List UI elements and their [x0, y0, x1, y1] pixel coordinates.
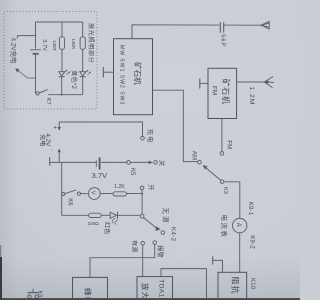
svg-text:K3: K3: [222, 187, 228, 194]
resistor R2 130R: [82, 22, 84, 37]
svg-text:有源: 有源: [131, 240, 139, 252]
FM set box U2: [208, 68, 237, 118]
impedance box: [218, 272, 247, 300]
svg-text:矿石机: 矿石机: [221, 79, 231, 105]
switch K6 pole: [62, 192, 65, 195]
LED D3 red: [110, 212, 116, 218]
wire 有源 to amp box: [142, 245, 144, 277]
svg-text:充电: 充电: [146, 129, 154, 144]
wire drop from battery row: [61, 162, 63, 215]
wire charge tap top: [59, 122, 142, 136]
svg-text:1.2K: 1.2K: [114, 184, 125, 190]
wire to battery: [50, 161, 96, 163]
node 开: [140, 186, 144, 190]
wire battery drop: [35, 22, 37, 49]
LED D1 yellow: [59, 72, 65, 76]
svg-text:K10: K10: [249, 278, 255, 290]
svg-text:AM: AM: [191, 151, 198, 160]
wire node to K4-2 pole: [141, 190, 143, 215]
wire from drop to R4: [62, 214, 89, 216]
svg-text:报警: 报警: [156, 245, 164, 257]
switch K3 pole: [220, 180, 224, 184]
wire K3 to ammeter: [224, 182, 240, 219]
resistor R4 100R: [89, 213, 102, 217]
ground stub MW box: [102, 67, 104, 78]
svg-text:K4-2: K4-2: [170, 227, 176, 242]
battery B1 3.7V: [30, 49, 41, 51]
svg-text:4.2V充电: 4.2V充电: [10, 38, 19, 65]
node 报警: [153, 241, 157, 245]
svg-text:+: +: [51, 126, 57, 130]
svg-text:黄色*2: 黄色*2: [70, 70, 78, 89]
node 充电: [141, 136, 145, 140]
switch K5 pole: [127, 161, 131, 165]
charging arrow: [18, 70, 36, 78]
antenna A1 (MW): [261, 21, 269, 29]
ground stub impedance: [212, 256, 214, 264]
wire to voltmeter: [81, 193, 88, 195]
svg-text:K5: K5: [129, 168, 135, 176]
svg-text:激光照明部分: 激光照明部分: [87, 23, 95, 64]
voltmeter M1: [88, 188, 100, 200]
resistor R1 130R: [61, 22, 63, 37]
svg-text:放大: 放大: [141, 283, 150, 300]
svg-text:充电: 充电: [38, 134, 46, 146]
minus arrow: [58, 149, 61, 153]
svg-text:K8: K8: [37, 291, 43, 298]
ammeter M2: [233, 218, 247, 232]
svg-text:1.2M: 1.2M: [248, 86, 255, 105]
wire FM box to FM terminal: [221, 119, 223, 152]
photo edge shadows: [0, 298, 300, 300]
wire MW antenna feed: [132, 25, 261, 39]
junction dot: [61, 94, 63, 96]
node FM: [220, 152, 224, 156]
switch K5 arm: [130, 161, 148, 163]
antenna A2 (FM whip): [264, 76, 274, 87]
wire LED3 to pole: [118, 214, 141, 216]
svg-text:100Ω: 100Ω: [88, 221, 100, 226]
switch K4-2 arm: [144, 218, 158, 229]
wire R1 to LED1: [61, 49, 63, 71]
node 无源: [161, 231, 165, 235]
svg-text:3.7V: 3.7V: [92, 171, 109, 180]
node K6 out: [77, 192, 80, 195]
svg-text:-: -: [49, 149, 55, 151]
wire R4 to LED3: [101, 214, 110, 216]
wire LED2 to bus: [82, 77, 84, 95]
wire FM to antenna: [237, 81, 265, 83]
svg-text:FM: FM: [211, 86, 218, 95]
svg-text:K9-2: K9-2: [249, 235, 255, 249]
wire MW box to AM terminal: [153, 90, 198, 161]
wire amp tap: [161, 269, 207, 300]
svg-text:FM: FM: [226, 140, 233, 149]
capacitor C1 56P: [219, 22, 224, 32]
MW set box U1: [114, 39, 153, 115]
wire R3 to node: [127, 193, 143, 195]
switch K3 arm: [206, 168, 221, 181]
wire battery to K5: [101, 161, 127, 163]
svg-text:K6: K6: [67, 198, 73, 206]
wire battery to switch: [35, 54, 37, 93]
svg-text:无源: 无源: [161, 208, 170, 225]
dashed enclosure box: [4, 12, 97, 110]
svg-text:130R: 130R: [52, 40, 57, 51]
switch K4-2 pole: [140, 214, 144, 218]
svg-text:开: 开: [146, 184, 153, 190]
plus arrow: [58, 122, 60, 127]
LED D2 yellow: [80, 72, 86, 76]
svg-text:56P: 56P: [219, 34, 225, 47]
wire top bus: [36, 21, 83, 23]
svg-text:关: 关: [158, 160, 166, 166]
svg-text:MW SW1 SW2 SW3: MW SW1 SW2 SW3: [119, 45, 125, 105]
svg-text:V: V: [90, 191, 96, 195]
wire R2 to LED2: [82, 49, 84, 71]
wire bottom bus: [48, 94, 82, 96]
svg-text:矿石机: 矿石机: [133, 62, 143, 85]
amplifier box: [137, 277, 173, 300]
node AM: [198, 160, 202, 164]
svg-text:电流表: 电流表: [220, 215, 229, 239]
node 关: [154, 161, 158, 165]
ground stub FM box: [199, 79, 201, 89]
svg-text:130R: 130R: [71, 39, 76, 50]
wire LED1 to bus: [61, 77, 63, 95]
svg-text:红色: 红色: [103, 222, 111, 234]
wire ammeter to impedance box: [239, 233, 241, 272]
buzzer box: [73, 277, 108, 300]
svg-text:K9-1: K9-1: [247, 202, 253, 216]
svg-text:3.7V: 3.7V: [41, 39, 47, 51]
push button K8: [28, 295, 31, 298]
resistor R3 1.2K: [113, 192, 127, 196]
svg-text:阻抗: 阻抗: [231, 277, 241, 295]
junction dot: [141, 193, 143, 195]
node 有源: [141, 241, 145, 245]
wire charge stub: [17, 36, 35, 39]
wire voltmeter to R3: [101, 193, 113, 195]
wire 报警 to buzzer: [90, 244, 155, 277]
battery B2 3.7V: [95, 160, 97, 167]
svg-text:A: A: [235, 223, 241, 227]
terminal bar: [49, 157, 51, 165]
svg-text:TDA13: TDA13: [157, 279, 164, 300]
switch K7: [36, 92, 39, 95]
svg-text:K7: K7: [45, 98, 51, 105]
